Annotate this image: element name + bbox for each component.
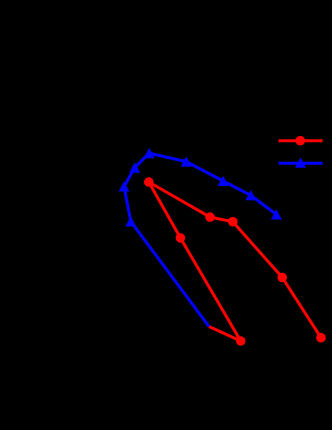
legend blue sample line	[279, 162, 323, 165]
blue marker B8	[271, 209, 282, 219]
red marker R4	[277, 273, 287, 283]
red marker R6	[176, 233, 186, 243]
red series line	[149, 182, 321, 341]
blue marker B2	[129, 162, 140, 172]
legend red sample line	[279, 139, 323, 142]
blue marker B4	[125, 216, 136, 226]
legend red marker	[296, 136, 306, 146]
blue series line	[124, 153, 276, 326]
blue marker B3	[119, 181, 130, 191]
blue marker B5	[181, 156, 192, 166]
red marker R2	[205, 212, 215, 222]
legend blue marker	[295, 158, 306, 168]
blue marker B7	[245, 190, 256, 200]
red marker R5	[316, 333, 326, 343]
red marker R3	[228, 217, 238, 227]
red marker R1	[144, 177, 154, 187]
blue marker B6	[218, 176, 229, 186]
red marker R7	[236, 336, 246, 346]
blue marker B1	[144, 148, 155, 158]
